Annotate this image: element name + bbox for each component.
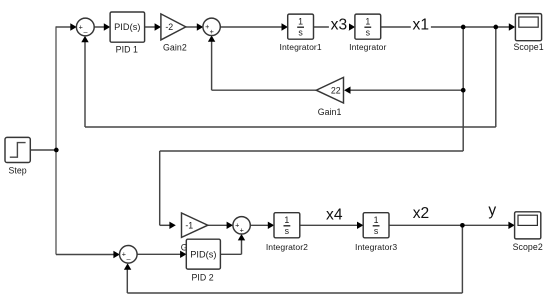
svg-text:x4: x4	[326, 206, 343, 223]
svg-text:Scope2: Scope2	[513, 242, 543, 252]
svg-text:–: –	[83, 27, 87, 36]
svg-text:Scope1: Scope1	[514, 42, 544, 52]
svg-text:Integrator3: Integrator3	[355, 242, 397, 252]
svg-text:-2: -2	[165, 22, 173, 32]
svg-text:1: 1	[298, 16, 303, 26]
svg-text:+: +	[210, 27, 214, 36]
svg-text:1: 1	[284, 215, 289, 225]
svg-text:s: s	[374, 226, 379, 236]
svg-text:Step: Step	[8, 166, 26, 176]
svg-text:Integrator1: Integrator1	[280, 42, 322, 52]
svg-text:x2: x2	[413, 205, 430, 222]
svg-text:Integrator: Integrator	[349, 42, 386, 52]
svg-text:PID 1: PID 1	[116, 44, 138, 54]
svg-text:s: s	[298, 27, 303, 37]
svg-text:–: –	[126, 255, 130, 264]
svg-text:PID 2: PID 2	[191, 272, 213, 282]
svg-text:1: 1	[374, 215, 379, 225]
svg-text:y: y	[488, 202, 496, 219]
svg-text:PID(s): PID(s)	[114, 22, 140, 32]
svg-text:PID(s): PID(s)	[190, 249, 216, 259]
svg-text:x3: x3	[331, 16, 348, 33]
svg-text:Gain1: Gain1	[318, 107, 342, 117]
svg-text:+: +	[240, 225, 244, 234]
svg-text:s: s	[285, 226, 290, 236]
svg-text:-1: -1	[185, 220, 193, 230]
svg-text:s: s	[366, 27, 371, 37]
svg-text:1: 1	[365, 16, 370, 26]
svg-text:+: +	[122, 250, 126, 259]
svg-text:x1: x1	[413, 16, 430, 33]
svg-text:+: +	[79, 22, 83, 31]
svg-text:Gain2: Gain2	[163, 42, 187, 52]
svg-text:Integrator2: Integrator2	[266, 242, 308, 252]
svg-text:22: 22	[331, 85, 341, 95]
